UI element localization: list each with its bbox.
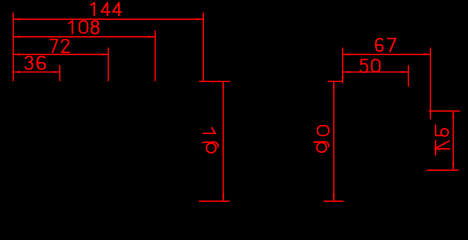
dimension line 91 vertical — [222, 81, 224, 201]
dimension text 91 rotated: digit 1 — [203, 128, 215, 134]
arrowhead down at bottom of common extension x=342.6 — [341, 76, 343, 83]
dimension text 91 rotated: digit 9 — [206, 143, 216, 153]
arrowhead bottom of dim 91 — [222, 194, 224, 201]
extension line left common of 67 and 50 x=342.6 — [342, 48, 344, 83]
dimension text 67 — [376, 38, 396, 51]
extension line right of 50 x=408.4 — [407, 65, 409, 86]
dimension line 144 — [13, 18, 203, 20]
dimension line 108 — [13, 36, 155, 38]
extension line top of 45 — [429, 110, 460, 112]
extension line right of 67 x=430.4 — [429, 48, 431, 120]
arrowhead left of dim 108 — [13, 36, 20, 38]
arrowhead right of dim 144 — [197, 18, 204, 20]
dimension line 45 vertical — [452, 111, 454, 170]
arrowhead right of dim 108 — [148, 36, 155, 38]
arrowhead right of dim 67 — [424, 53, 431, 55]
arrowhead right of dim 36 — [53, 71, 60, 73]
arrowhead left of dim 67 — [343, 53, 350, 55]
extension line bottom of 91 — [199, 200, 230, 202]
dimension text 90 rotated: digit 0 — [318, 126, 329, 136]
dimension line 50 — [343, 71, 409, 73]
extension line right of 144 x=203.3 — [202, 13, 204, 82]
dimension text 72 — [50, 40, 69, 53]
extension line left common x=13.2 — [12, 13, 14, 82]
arrowhead bottom of dim 45 — [452, 163, 454, 170]
dimension text 45 rotated: digit 4 — [435, 141, 450, 155]
extension line right of 108 x=155.2 — [154, 30, 156, 81]
dimension line 72 — [13, 53, 108, 55]
extension line right of 36 x=59.8 — [59, 65, 61, 81]
dimension line 90 vertical — [333, 81, 335, 201]
dimension text 50 — [360, 60, 379, 73]
arrowhead bottom of dim 90 — [333, 194, 335, 201]
arrowhead left of dim 72 — [13, 53, 20, 55]
arrowhead right of dim 72 — [102, 53, 109, 55]
dimension text 45 rotated: digit 5 — [436, 125, 442, 135]
arrowhead left of dim 36 — [13, 71, 20, 73]
extension line right of 72 x=108.3 — [107, 48, 109, 82]
arrowhead top of dim 90 — [333, 81, 335, 88]
arrowhead left of dim 50 — [343, 71, 350, 73]
dimension text 90 rotated: digit 9 — [317, 143, 327, 153]
extension line top of 91 — [199, 80, 230, 82]
arrowhead top of dim 45 — [452, 111, 454, 118]
dimension text 36 — [25, 56, 45, 69]
extension line top of 90 — [328, 80, 343, 82]
dimension line 67 — [343, 53, 431, 55]
dimension line 36 — [13, 71, 60, 73]
arrowhead top of dim 91 — [222, 81, 224, 88]
dimension text 144 — [91, 3, 121, 16]
extension line bottom of 45 — [427, 169, 459, 171]
extension line bottom of 90 — [324, 200, 344, 202]
dimension text 108 — [69, 21, 98, 34]
arrowhead right of dim 50 — [402, 71, 409, 73]
arrowhead left of dim 144 — [13, 18, 20, 20]
